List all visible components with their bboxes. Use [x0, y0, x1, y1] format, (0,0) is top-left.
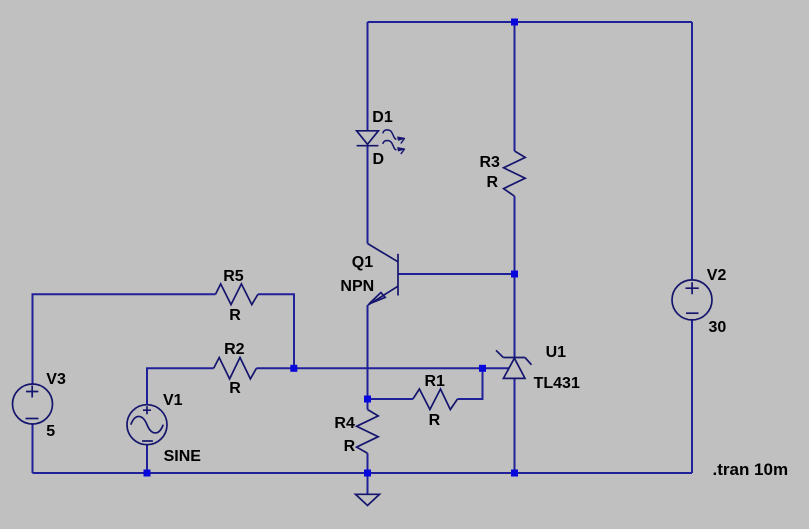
wire D1 anode from top rail	[367, 22, 369, 131]
junction V1 / bottom rail	[144, 470, 151, 477]
transistor Q1	[368, 244, 399, 306]
wire D1 cathode to Q1 collector	[367, 146, 369, 244]
wire R4 bottom lead	[367, 453, 369, 473]
wire Q1 emitter column	[367, 305, 369, 399]
label R4 value R	[344, 439, 356, 455]
label V2 designator	[707, 268, 727, 284]
sine source V1	[127, 405, 167, 445]
wire R1 left lead	[368, 398, 413, 400]
resistor R1	[413, 389, 458, 410]
label U1 value TL431	[534, 376, 580, 392]
junction Q1 base / R3 column	[511, 271, 518, 278]
wire R4 top lead	[367, 399, 369, 410]
label V2 value 30	[709, 320, 727, 336]
label V3 designator	[46, 372, 66, 388]
junction emitter / R1 / R4	[364, 396, 371, 403]
wire R3 top lead from rail	[514, 22, 516, 151]
wire R2 right to TL431 ref	[256, 367, 509, 369]
wire bottom rail	[33, 472, 693, 474]
label R3 designator	[480, 155, 500, 171]
resistor R3	[504, 151, 526, 196]
wire R1 right lead up to ref junction	[458, 368, 483, 399]
ground	[356, 494, 380, 505]
label R1 value R	[429, 413, 441, 429]
wire TL431 anode to bottom rail	[514, 378, 516, 473]
label R2 value R	[229, 381, 241, 397]
wire V3 top to R5 row	[33, 294, 216, 384]
wire R3 bottom to TL431 cathode	[514, 196, 516, 357]
label D1 value D	[373, 152, 385, 168]
wire V3 bottom	[32, 424, 34, 473]
junction R2 / R5	[290, 365, 297, 372]
label R5 value R	[229, 308, 241, 324]
label R3 value R	[487, 175, 499, 191]
junction R1 / TL431 ref	[479, 365, 486, 372]
wire ground stub	[367, 473, 369, 494]
label R2 designator	[224, 342, 244, 358]
junction top rail / R3	[511, 19, 518, 26]
label R5 designator	[223, 269, 243, 285]
label R1 designator	[425, 374, 445, 390]
label R4 designator	[334, 416, 354, 432]
resistor R4	[357, 410, 379, 454]
wire R5 right lead down to R2 row	[258, 294, 294, 368]
wire V1 top to R2 left lead	[147, 368, 214, 404]
label Q1 designator	[352, 255, 373, 271]
junction TL431 / bottom rail	[511, 470, 518, 477]
wire V2 top from rail	[691, 22, 693, 280]
junction R4 / ground / bottom rail	[364, 470, 371, 477]
wire top rail	[368, 21, 693, 23]
wire V1 bottom	[146, 445, 148, 473]
voltage source V3	[13, 384, 53, 424]
resistor R2	[214, 358, 257, 379]
LED D1	[357, 130, 397, 150]
label Q1 value NPN	[340, 279, 374, 295]
label D1 designator	[372, 110, 392, 126]
wire V2 bottom to rail	[691, 320, 693, 473]
wire Q1 base lead	[398, 273, 515, 275]
voltage source V2	[672, 280, 712, 320]
resistor R5	[216, 284, 258, 305]
shunt regulator U1 TL431	[496, 350, 532, 378]
label spice directive .tran 10m	[713, 461, 789, 478]
label V1 designator	[163, 393, 183, 409]
label V1 value SINE	[164, 449, 201, 465]
label U1 designator	[546, 345, 566, 361]
label V3 value 5	[46, 424, 55, 440]
